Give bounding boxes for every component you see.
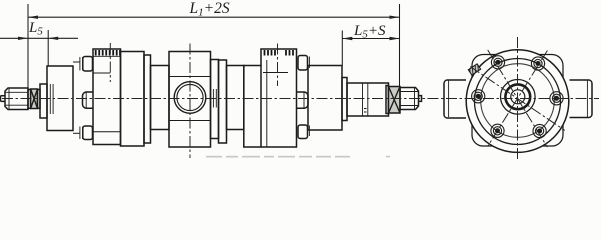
svg-text:L1+2S: L1+2S [189, 0, 230, 19]
svg-text:L5+S: L5+S [353, 23, 386, 41]
